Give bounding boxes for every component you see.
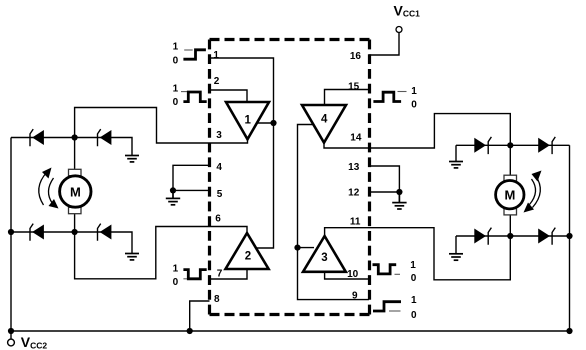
wire driver3 output to pin11 3Y — [325, 228, 369, 236]
driver U1:4 triangle — [302, 105, 346, 143]
input waveform pin2 pulse 1/0 — [173, 83, 207, 107]
VCC2 terminal — [8, 339, 15, 346]
motor M2 rotation arrows — [530, 176, 541, 208]
svg-text:0: 0 — [411, 310, 417, 321]
input waveform pin15 pulse 1/0 — [373, 86, 417, 111]
svg-text:0: 0 — [173, 55, 179, 66]
wire pin4 GND stub — [173, 165, 210, 190]
junction dot right rail bus — [566, 328, 572, 334]
svg-text:0: 0 — [411, 273, 417, 284]
ground right bottom diode row — [449, 254, 463, 260]
wire pin12 GND stub — [369, 191, 399, 193]
svg-text:15: 15 — [348, 82, 360, 93]
wire pin2 1A input to driver 1 — [210, 90, 248, 102]
wire pin8 VCC2 feed — [190, 301, 210, 331]
svg-text:14: 14 — [350, 133, 362, 144]
wire driver1 output to pin3 1Y — [210, 139, 248, 143]
wire pin14 4Y external route to motor M2 top — [369, 114, 510, 148]
motor M1 — [60, 169, 91, 213]
svg-text:0: 0 — [411, 100, 417, 111]
diode D3 left bottom-left — [30, 224, 44, 241]
junction dot M2 bottom row — [507, 233, 513, 239]
svg-text:7: 7 — [217, 269, 223, 280]
input waveform pin10 inverted pulse 1/0 — [373, 260, 417, 284]
svg-text:M: M — [505, 188, 516, 203]
svg-text:1: 1 — [411, 295, 417, 306]
diode D4 left bottom-right — [98, 224, 112, 241]
ground pins 4,5 — [166, 190, 180, 204]
wire motor M2 column top — [509, 145, 511, 175]
ground left top diode row — [125, 156, 139, 162]
diode D1 left top-left — [30, 129, 44, 146]
junction dot M1 bottom row — [72, 229, 78, 235]
wire left rail — [10, 138, 12, 332]
ground left bottom diode row — [125, 254, 139, 260]
wire motor M1 column top — [74, 138, 76, 170]
VCC1 terminal — [396, 27, 402, 33]
wire right bottom diode row — [456, 236, 570, 254]
wire motor M1 column bottom — [74, 214, 76, 232]
input waveform pin1 step 1/0 — [173, 42, 206, 67]
wire pin13 GND stub — [369, 166, 399, 192]
input waveform pin7 inverted pulse 1/0 — [173, 264, 207, 288]
svg-text:0: 0 — [173, 97, 179, 108]
svg-text:4: 4 — [321, 114, 328, 126]
wire pin1 1,2EN enable net — [210, 58, 274, 248]
svg-text:13: 13 — [348, 162, 360, 173]
diode D8 right bottom-right — [538, 228, 555, 245]
wire pin6 2Y external route to motor M1 bottom — [75, 227, 210, 279]
wire pin3 1Y external route to motor M1 top — [75, 108, 210, 144]
svg-text:2: 2 — [245, 251, 251, 263]
wire driver2 output to pin6 2Y — [210, 227, 248, 234]
junction dot right rail bottom row — [566, 233, 572, 239]
svg-text:5: 5 — [217, 189, 223, 200]
svg-text:1: 1 — [173, 42, 179, 53]
diode D6 right top-right — [538, 137, 555, 154]
svg-text:3: 3 — [321, 252, 327, 264]
wire pin16 VCC1 feed — [369, 33, 399, 56]
driver U1:1 triangle — [226, 102, 269, 139]
svg-text:M: M — [70, 185, 81, 200]
junction dot enable/driver1 — [270, 120, 276, 126]
diode D2 left top-right — [98, 129, 112, 146]
svg-text:1: 1 — [411, 86, 417, 97]
driver U1:2 triangle — [226, 233, 269, 269]
ground right top diode row — [449, 162, 463, 168]
svg-text:3: 3 — [216, 130, 222, 141]
wire VCC2 terminal stem — [10, 331, 12, 339]
junction dot pin8 bus — [187, 328, 193, 334]
motor M2 — [496, 175, 524, 215]
junction dot VCC2 terminal — [8, 328, 14, 334]
svg-text:1: 1 — [410, 260, 416, 271]
wire pin5 GND stub — [173, 189, 210, 191]
svg-text:1: 1 — [173, 264, 179, 275]
input waveform pin9 step 1/0 — [373, 295, 417, 321]
wire pin7 2A input to driver 2 — [210, 269, 248, 279]
wire stub enable to driver 3 — [298, 247, 315, 249]
svg-text:4: 4 — [216, 162, 222, 173]
junction dot enable/driver3 — [294, 245, 300, 251]
diode D5 right top-left — [474, 137, 491, 154]
diode D7 right bottom-left — [474, 228, 491, 245]
wire pin9 3,4EN enable net — [298, 125, 370, 300]
wire stub enable to driver 1 — [257, 122, 274, 124]
wire right rail — [569, 145, 571, 331]
ground pins 12,13 — [392, 192, 406, 209]
svg-text:1: 1 — [173, 83, 179, 94]
IC U1 dashed package outline — [210, 40, 370, 315]
svg-text:0: 0 — [173, 277, 179, 288]
junction dot left rail bottom row — [8, 229, 14, 235]
svg-text:1: 1 — [213, 50, 219, 61]
junction dot M1 top row — [72, 134, 78, 140]
svg-text:2: 2 — [214, 76, 220, 87]
junction dot M2 top row — [507, 142, 513, 148]
driver U1:3 triangle — [303, 236, 346, 272]
svg-text:16: 16 — [350, 51, 362, 62]
wire driver4 output to pin14 4Y — [324, 143, 369, 148]
wire left top diode row — [11, 138, 132, 156]
wire pin15 4A input to driver 4 — [325, 90, 370, 106]
wire right top diode row — [456, 145, 570, 161]
svg-text:11: 11 — [350, 217, 361, 228]
motor M1 rotation arrows — [39, 172, 54, 205]
svg-text:12: 12 — [348, 188, 360, 199]
wire motor M2 column bottom — [509, 215, 511, 236]
junction dot right GND bracket — [396, 189, 402, 195]
wire pin11 3Y external route to motor M2 bottom — [369, 228, 510, 280]
junction dot left GND bracket — [170, 187, 176, 193]
svg-text:8: 8 — [214, 294, 220, 305]
wire VCC2 bottom bus — [11, 330, 570, 332]
svg-text:6: 6 — [215, 214, 221, 225]
wire left bottom diode row — [11, 232, 132, 254]
wire pin10 3A input to driver 3 — [325, 272, 369, 279]
svg-text:1: 1 — [245, 115, 252, 127]
